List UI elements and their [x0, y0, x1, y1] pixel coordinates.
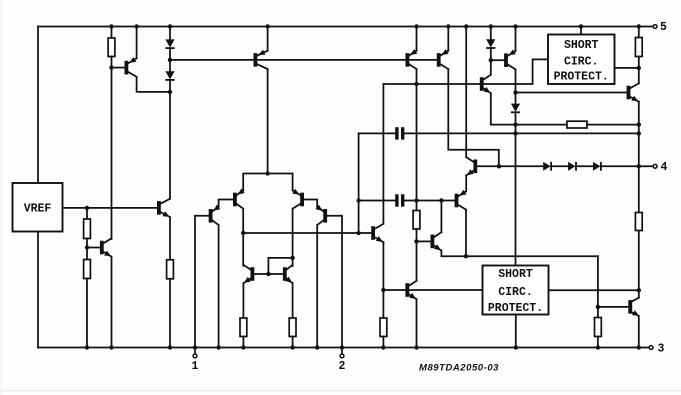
wire SCP2 bottom to ground	[515, 315, 517, 348]
node Q4 emitter rail	[265, 24, 269, 28]
resistor R9	[635, 27, 642, 68]
node output drive	[497, 164, 501, 168]
wire mirror base-collector tie	[268, 258, 292, 274]
svg-text:SHORT: SHORT	[564, 39, 599, 52]
node output emitter upper	[637, 122, 641, 126]
transistor Q15	[455, 190, 467, 210]
wire bias line diodes to Q4 base	[170, 59, 254, 61]
diode D1	[165, 27, 174, 60]
node R5 ground	[241, 345, 245, 349]
wire VREF output	[63, 207, 158, 209]
wire Q20 emitter to output	[638, 102, 640, 167]
wire Q22 emitter to ground	[638, 316, 640, 347]
node Q22 emitter ground	[637, 345, 641, 349]
wire Q15 collector down	[465, 210, 467, 257]
node mirror takeoff	[241, 231, 245, 235]
wire Q20 collector	[638, 68, 640, 83]
pin 5 terminal	[653, 21, 667, 34]
wire Q18 collector	[490, 60, 492, 75]
resistor R3 divider lower	[84, 248, 91, 348]
transistor Q5	[406, 49, 418, 69]
node C2 right / Q16 collector	[439, 198, 443, 202]
diode D7	[593, 162, 653, 171]
node Q19 emitter rail	[513, 24, 517, 28]
wire Q18 emitter	[491, 93, 516, 124]
node D1-D2 junction	[168, 58, 172, 62]
transistor Q19	[491, 49, 516, 69]
wire Q16 collector	[440, 201, 442, 233]
transistor Q14 driver	[466, 157, 477, 175]
wire Q3 emitter to ground	[111, 257, 113, 348]
wire output line	[499, 165, 543, 167]
node Q1 collector / D2	[168, 90, 172, 94]
wire Q18 base right to SCP1	[484, 59, 549, 84]
resistor R5 mirror left	[240, 283, 247, 347]
svg-text:4: 4	[661, 161, 668, 174]
wire Q8 collector to ground	[218, 225, 220, 348]
block VREF	[13, 183, 63, 232]
wire Q13 emitter down	[380, 242, 387, 347]
pin 2 terminal	[339, 354, 346, 373]
diode D3	[486, 27, 495, 61]
diode D2	[165, 60, 174, 92]
node divider top	[85, 206, 89, 210]
wire protection drop	[597, 256, 599, 307]
node Q17 emitter ground	[414, 345, 418, 349]
svg-text:M89TDA2050-03: M89TDA2050-03	[419, 363, 499, 374]
node C1 line output	[637, 131, 641, 135]
wire ground bottom rail	[38, 347, 649, 349]
diode D5	[543, 162, 568, 171]
wire Q7 base link	[219, 200, 234, 207]
node Q15 collector join	[464, 254, 468, 258]
transistor Q4	[254, 50, 268, 69]
transistor Q6	[437, 49, 449, 69]
resistor R11	[635, 166, 642, 290]
transistor Q12 mirror right	[283, 265, 293, 283]
node R3 ground	[85, 345, 89, 349]
svg-text:PROTECT.: PROTECT.	[488, 302, 543, 315]
wire left supply drop to VREF	[37, 27, 39, 184]
resistor R1	[108, 27, 115, 68]
transistor Q2	[157, 199, 170, 217]
wire Q18 collector up	[416, 241, 418, 280]
transistor Q8 pin1 input	[209, 205, 221, 225]
transistor Q10 pin2 input	[315, 205, 327, 225]
block short circuit protect lower	[483, 266, 549, 316]
wire Q18 base line	[417, 83, 480, 85]
node Q22 base	[596, 305, 600, 309]
capacitor C1	[359, 127, 639, 139]
svg-text:PROTECT.: PROTECT.	[554, 71, 609, 84]
node Q1 emitter rail	[134, 24, 138, 28]
wire Q6 collector to driver base	[448, 69, 499, 166]
diode D6	[568, 162, 593, 171]
node Q6 emitter rail	[446, 24, 450, 28]
node pin2 rail	[340, 345, 344, 349]
node R12 ground	[596, 345, 600, 349]
wire Q2 collector	[169, 92, 171, 199]
node D1 top rail	[168, 24, 172, 28]
svg-text:SHORT: SHORT	[498, 268, 533, 281]
node Q5 collector	[414, 82, 418, 86]
label drawing number	[419, 363, 499, 374]
wire SCP1 top to rail	[580, 27, 582, 35]
wire Q10 collector to ground	[316, 225, 318, 348]
node R9 rail	[637, 24, 641, 28]
wire SCP1 right	[615, 67, 639, 69]
transistor Q1	[112, 57, 137, 77]
node C2 chain	[414, 198, 418, 202]
node Q20 collector	[637, 66, 641, 70]
wire bias line Q4 to Q5 base	[257, 59, 405, 61]
node top driver base	[513, 90, 517, 94]
node Q10 collector ground	[315, 345, 319, 349]
wire Q17 base right to SCP2	[409, 289, 482, 291]
wire Q7 collector down	[242, 209, 244, 266]
wire Q1 collector	[137, 77, 170, 92]
svg-text:1: 1	[192, 360, 199, 373]
wire Q4 collector to diff pair	[267, 69, 269, 173]
node R7 ground	[381, 345, 385, 349]
node SCP2 ground	[514, 345, 518, 349]
wire comp vertical	[358, 133, 360, 233]
wire Q22 collector	[638, 290, 640, 297]
wire Q11 base link	[254, 273, 283, 275]
node Q3 base	[85, 245, 89, 249]
node D3 bottom	[489, 58, 493, 62]
node diff tail	[265, 171, 269, 175]
transistor Q11 mirror left	[243, 265, 254, 283]
svg-text:2: 2	[339, 360, 346, 373]
wire mirror to Q13 base	[243, 232, 371, 234]
transistor Q3	[87, 238, 112, 256]
wire Q5 collector	[416, 69, 418, 84]
svg-text:5: 5	[660, 21, 667, 34]
scan artifact left	[0, 0, 2, 395]
wire Q6 emitter	[447, 27, 449, 51]
node pin1 rail	[193, 345, 197, 349]
resistor R10 sense	[516, 121, 639, 128]
wire Q1 emitter	[136, 27, 138, 58]
wire V+ top rail	[38, 26, 653, 28]
wire Q4 emitter	[267, 27, 269, 51]
wire Q8 base to pin 1	[195, 216, 209, 354]
node SCP drop upper	[513, 122, 517, 126]
node mirror bases	[266, 272, 270, 276]
node C1 line SCP drop	[513, 131, 517, 135]
transistor Q7 input left	[233, 188, 245, 208]
transistor Q20 output top	[627, 83, 639, 101]
svg-text:CIRC.: CIRC.	[564, 56, 599, 69]
resistor R2 divider upper	[84, 208, 91, 248]
wire bias line Q5 to Q6 base	[409, 59, 437, 61]
transistor Q13 VAS	[371, 224, 383, 242]
wire Q5 emitter	[416, 27, 418, 51]
wire Q13 collector up	[383, 84, 416, 224]
wire Q14 collector to rail	[465, 27, 467, 158]
wire tail split	[243, 174, 292, 191]
wire Q17 emitter to ground	[416, 299, 418, 347]
pin 4 terminal	[653, 161, 667, 174]
resistor R12	[595, 307, 602, 348]
node compensation tap	[356, 231, 360, 235]
node Q5 emitter rail	[414, 24, 418, 28]
transistor Q16	[417, 232, 442, 250]
wire Q22 base	[598, 306, 629, 308]
node Q1 base	[109, 65, 113, 69]
svg-text:3: 3	[658, 342, 665, 355]
node C2 left	[356, 198, 360, 202]
node Q14 collector rail	[464, 24, 468, 28]
svg-text:VREF: VREF	[24, 203, 52, 216]
wire Q15-Q14 emitter link	[465, 176, 467, 192]
wire Q10 base to pin 2	[327, 216, 342, 354]
wire SCP2 right to output branch	[549, 289, 639, 291]
pin 3 terminal	[649, 342, 664, 355]
wire R1 to Q3 collector	[111, 68, 113, 239]
node output	[637, 164, 641, 168]
node Q8 collector ground	[216, 345, 220, 349]
node R6 ground	[290, 345, 294, 349]
wire Q9 base link	[304, 200, 317, 207]
wire Q19 emitter	[515, 27, 517, 52]
node R1 top	[109, 24, 113, 28]
wire Q9 collector down	[292, 209, 294, 266]
wire VREF to bottom rail	[37, 232, 39, 348]
block short circuit protect upper	[548, 35, 615, 85]
node Q13 emitter / Q17 base	[381, 288, 385, 292]
wire top driver base line	[516, 92, 627, 94]
wire Q16 emitter	[441, 251, 598, 257]
transistor Q17	[383, 281, 416, 299]
node D3 rail	[489, 24, 493, 28]
wire Q14 base	[477, 165, 499, 167]
node Q16 base	[414, 239, 418, 243]
resistor R8 bias chain	[413, 84, 420, 241]
node SCP1 rail	[579, 24, 583, 28]
resistor R4	[167, 217, 174, 347]
wire Q19 collector long drop	[511, 69, 520, 265]
pin 1 terminal	[192, 354, 199, 373]
transistor Q9 input right	[292, 189, 304, 209]
capacitor C2	[359, 194, 455, 206]
node mirror diode link	[290, 256, 294, 260]
transistor Q18 cascode	[480, 75, 491, 93]
node bottom driver collector	[637, 288, 641, 292]
transistor Q22 output bottom	[628, 298, 639, 316]
svg-text:CIRC.: CIRC.	[498, 286, 533, 299]
resistor R6 mirror right	[289, 283, 296, 347]
node R4 ground	[168, 345, 172, 349]
scan artifact bottom	[0, 390, 681, 392]
node Q3 emitter ground	[109, 345, 113, 349]
